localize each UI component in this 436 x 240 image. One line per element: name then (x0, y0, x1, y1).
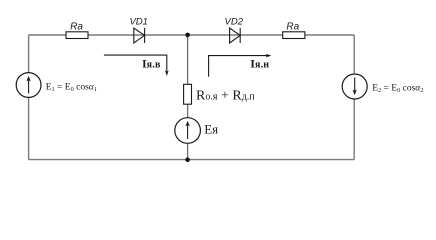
source Eя (circle, arrow up) (175, 118, 201, 144)
resistor Ra (right) (283, 32, 305, 39)
svg-text:Iя.в: Iя.в (142, 56, 161, 70)
wire: left branch (28, 35, 30, 160)
current arrow Iя.в (104, 55, 169, 76)
svg-text:Ra: Ra (286, 22, 299, 33)
wire: bottom bus (29, 159, 355, 161)
resistor Ra (left) (66, 32, 88, 39)
svg-text:Eя: Eя (204, 122, 218, 137)
svg-text:VD1: VD1 (129, 17, 147, 28)
diode VD2 (230, 28, 241, 43)
svg-text:Rо.я + Rд.п: Rо.я + Rд.п (196, 89, 255, 104)
svg-text:E1 = E0 cosα1: E1 = E0 cosα1 (46, 82, 97, 93)
resistor Ro.я + Rд.п (armature) (184, 84, 192, 104)
wire: armature branch (middle) (187, 35, 189, 160)
svg-text:Ra: Ra (70, 22, 83, 33)
source E1 (circle, arrow up) (16, 73, 41, 98)
source E2 (circle, arrow down) (342, 74, 367, 99)
svg-text:Iя.н: Iя.н (250, 57, 269, 71)
node: bottom junction (185, 157, 190, 162)
node: top junction (185, 33, 190, 38)
wire: right branch (353, 35, 355, 160)
diode VD1 (134, 28, 145, 43)
current arrow Iя.н (209, 54, 272, 77)
wire: top bus (29, 34, 355, 36)
svg-text:VD2: VD2 (225, 17, 244, 28)
svg-text:E2 = E0 cosα2: E2 = E0 cosα2 (372, 84, 423, 95)
